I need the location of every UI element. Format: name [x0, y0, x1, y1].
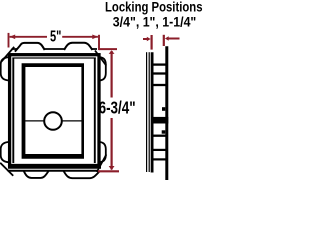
side view back fin line 1: [146, 52, 148, 172]
bottom-left mounting tab: [24, 171, 49, 178]
center circle: [44, 112, 62, 130]
dim 6-3/4 down arrow: [109, 166, 115, 170]
side view rung 2: [153, 72, 167, 74]
dim 5in line right segment: [62, 36, 98, 38]
bottom-right mounting tab: [64, 171, 101, 178]
thin offset top line: [12, 57, 95, 59]
locking range left tick: [151, 35, 153, 50]
top-left ear: [1, 57, 9, 80]
mask for slash descender: [115, 114, 123, 119]
bottom-right corner chamfer: [97, 155, 107, 173]
thin offset right line: [94, 58, 96, 164]
side view blob lower on face edge: [162, 130, 166, 133]
side view back fin line 2: [148, 52, 150, 172]
dim 5in left arrow: [10, 35, 16, 40]
dim 5in left extension tick: [8, 33, 10, 48]
dim 6-3/4 top extension line: [99, 48, 117, 50]
outer block rect (thick): [10, 55, 99, 166]
top-left mounting tab: [15, 43, 45, 52]
svg-text:3/4", 1", 1-1/4": 3/4", 1", 1-1/4": [113, 14, 197, 29]
top-right mounting tab: [64, 43, 92, 50]
locking range left leader arrow: [147, 37, 151, 41]
side view rung 4: [153, 135, 167, 137]
bottom-right ear: [100, 142, 106, 162]
side view flange edge (thick): [151, 52, 154, 172]
side view rung 5: [153, 149, 167, 151]
locking range right leader line: [168, 38, 179, 40]
bottom edge extra thickness: [8, 166, 101, 169]
thin offset rect: [12, 58, 14, 164]
side view face edge (thick): [165, 46, 168, 180]
locking range right leader arrow: [165, 36, 169, 40]
dim 6-3/4 bottom extension line: [98, 170, 119, 172]
locking range right tick: [163, 35, 165, 46]
top-right corner chamfer: [95, 51, 106, 66]
bottom-left corner chamfer: [0, 163, 13, 176]
locking range left leader line: [143, 38, 147, 40]
svg-text:5": 5": [50, 28, 61, 45]
bottom-left ear: [1, 142, 9, 162]
side view blob upper on face edge: [162, 107, 165, 111]
top-left corner chamfer: [1, 47, 14, 62]
dim 5in right arrow: [92, 35, 98, 40]
dim 5in line left segment: [10, 36, 47, 38]
dim 6-3/4 line lower segment: [110, 118, 112, 170]
flange bottom edge line: [8, 170, 98, 172]
inner raised rect (thick): [22, 63, 84, 159]
dim 5in right extension tick: [98, 35, 100, 50]
mid split line: [25, 120, 82, 122]
dim 6-3/4 line upper segment: [110, 51, 112, 98]
svg-text:Locking Positions: Locking Positions: [105, 0, 203, 15]
side view rung 1: [153, 63, 167, 65]
flange top edge line: [12, 48, 98, 50]
dim 6-3/4 up arrow: [109, 50, 115, 54]
side view solid lock band: [151, 117, 168, 124]
side view rung 3: [153, 84, 167, 86]
top-right ear: [100, 57, 106, 80]
side view rung 6: [153, 158, 167, 160]
